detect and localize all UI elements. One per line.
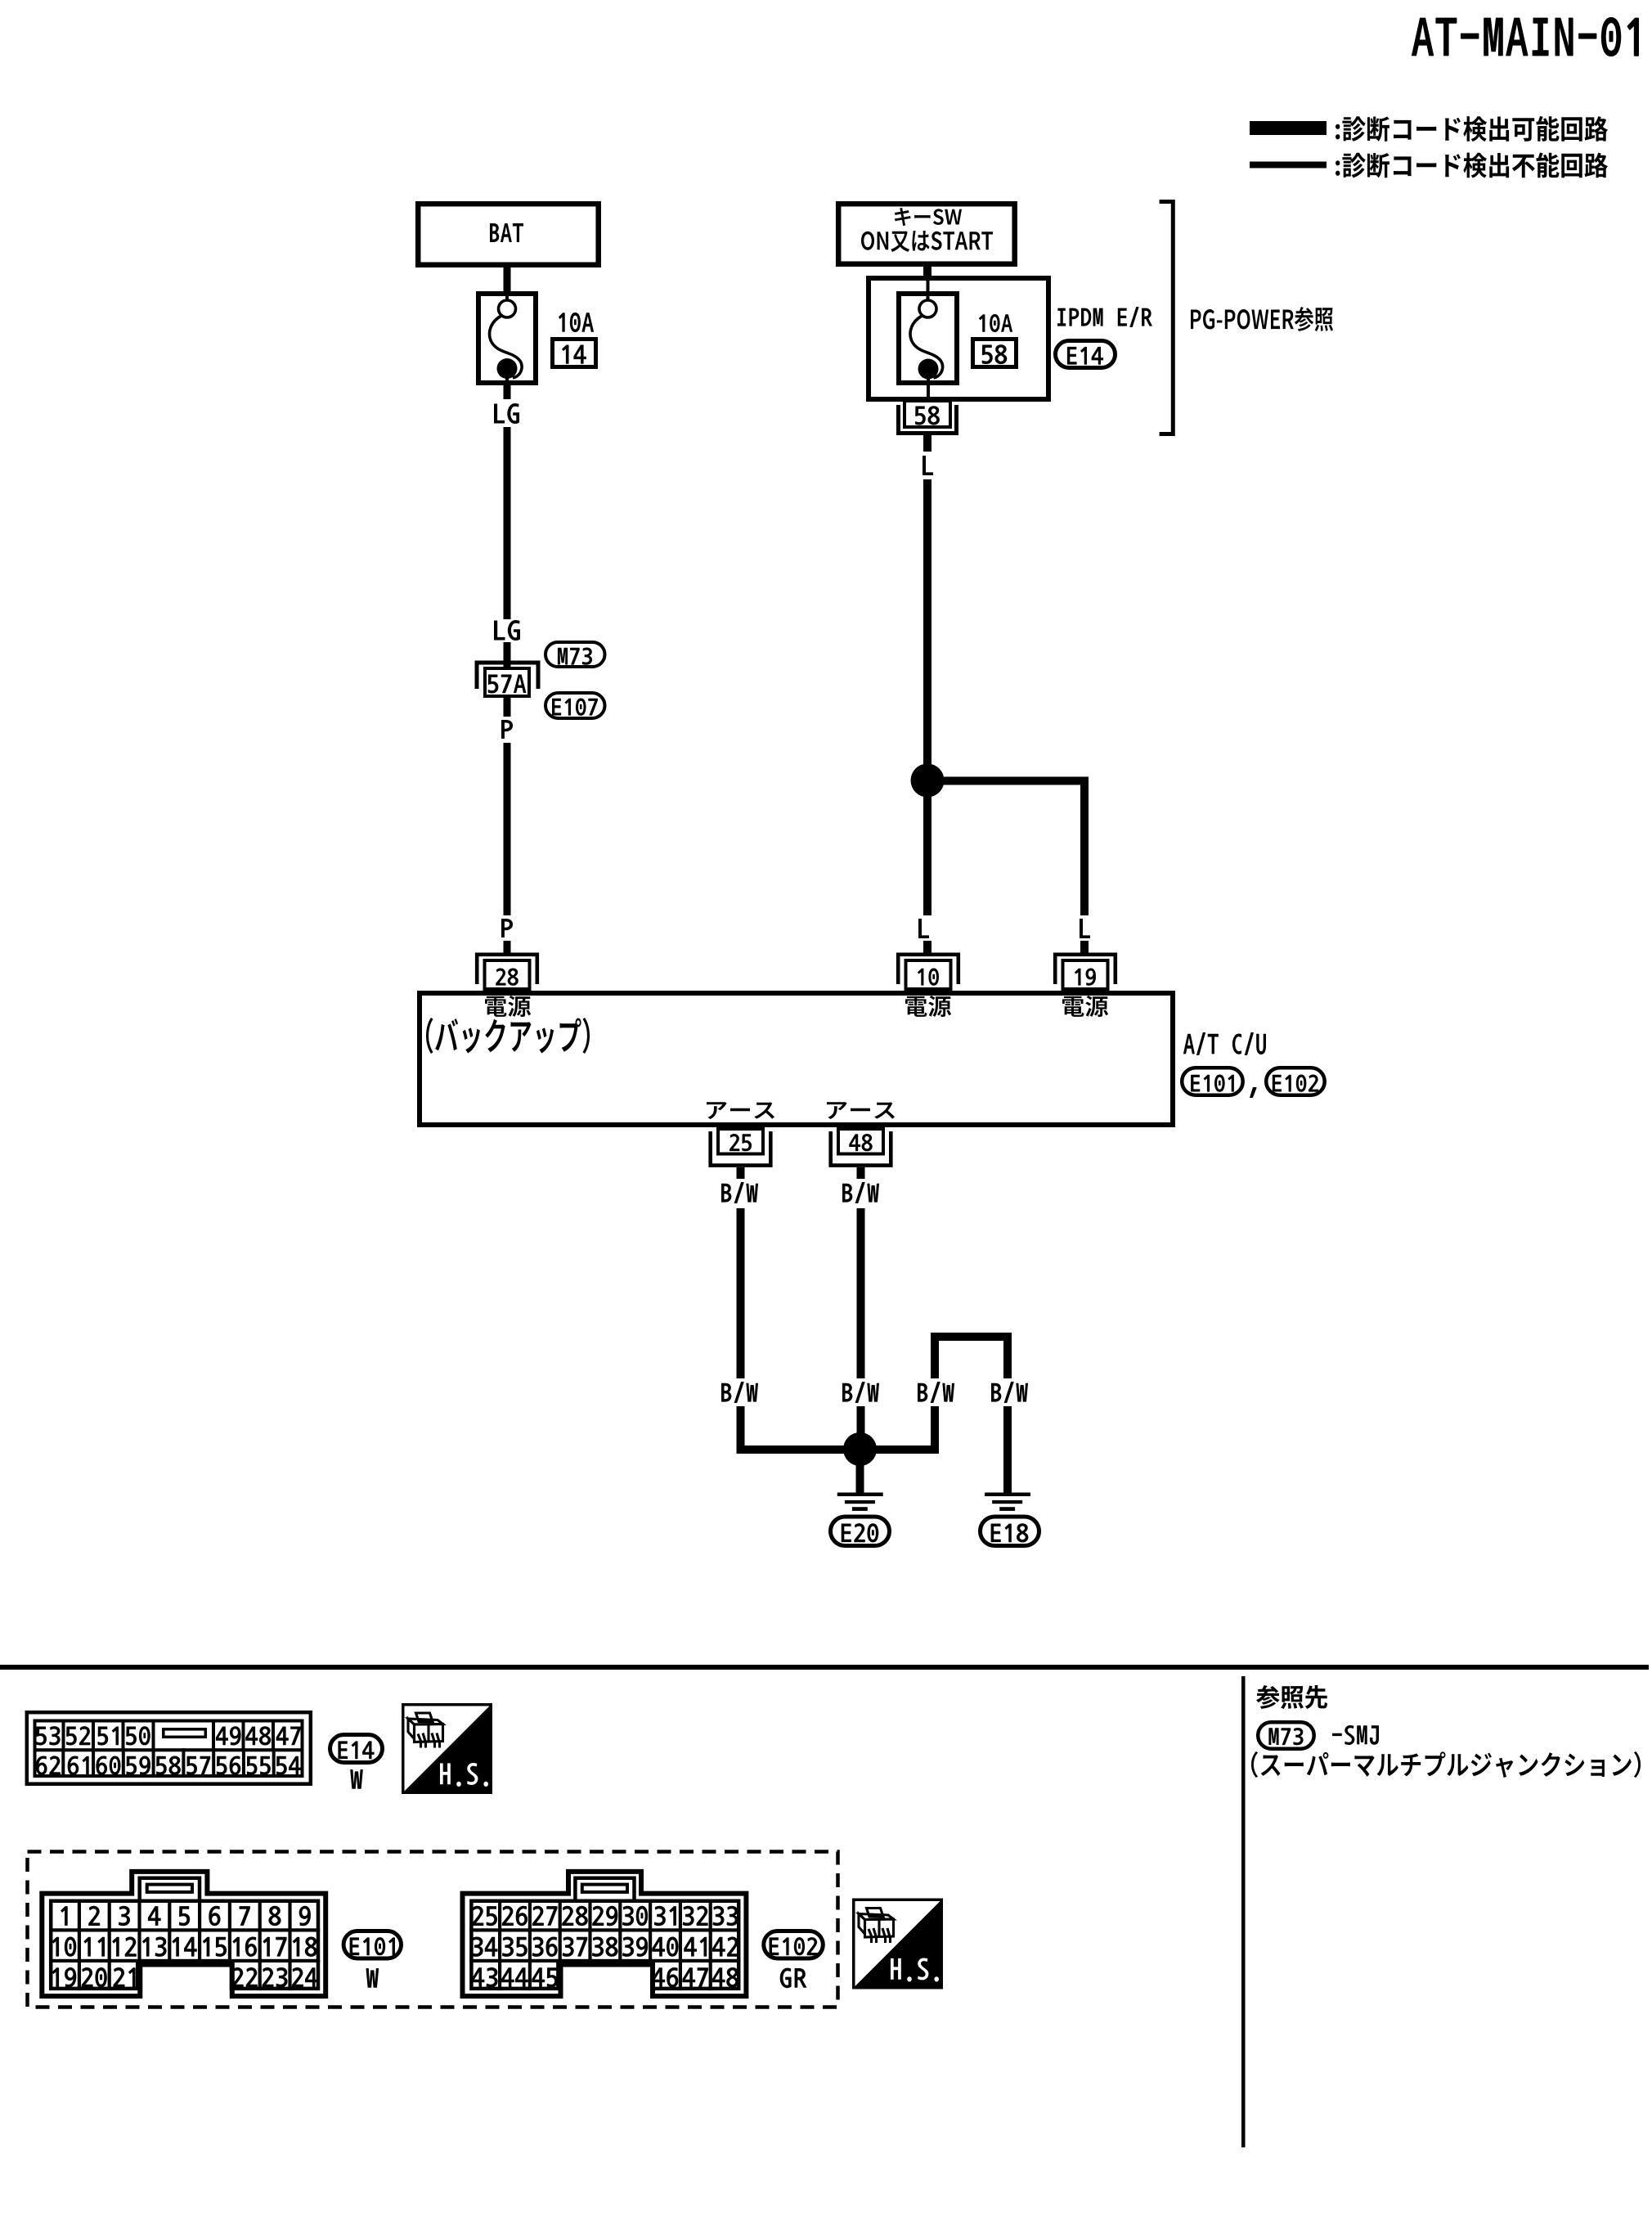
bridge wire top bar bbox=[931, 1333, 1012, 1341]
fuse 58 feed wire bbox=[927, 281, 930, 300]
pin 10 number bbox=[918, 969, 939, 986]
wire color B/W (row2 c) bbox=[918, 1382, 954, 1403]
wire stub below pin 25 bbox=[737, 1167, 745, 1179]
fuse number 14 box bbox=[553, 339, 596, 367]
pin 25 terminal box bbox=[718, 1129, 763, 1154]
wire B/W middle segment bbox=[857, 1208, 865, 1378]
connector ref M73 bbox=[558, 648, 592, 665]
legend label: non-detectable circuit bbox=[1336, 153, 1608, 178]
ground ref E18 bbox=[991, 1523, 1029, 1542]
connector E101 oval bbox=[1182, 1068, 1243, 1095]
fuse 14 element wire bbox=[505, 291, 509, 300]
wire junction to ground E20 bbox=[856, 1464, 864, 1494]
wire below fuse 14 bbox=[504, 385, 511, 399]
wire below 57A bbox=[504, 698, 511, 717]
fuse 14 bottom terminal dot bbox=[497, 358, 518, 379]
wire color B/W (row2 b) bbox=[842, 1382, 879, 1403]
ground connector E20 oval bbox=[831, 1517, 890, 1546]
fuse number 14 bbox=[562, 345, 586, 364]
E14 keyway slot bbox=[164, 1729, 206, 1738]
fuse number 58 box bbox=[973, 339, 1017, 367]
E14 connector outer box bbox=[27, 1712, 311, 1784]
pin 25 number bbox=[729, 1134, 752, 1151]
wire B/W left lower bbox=[737, 1406, 745, 1454]
SMJ terminal 57A box bbox=[485, 668, 529, 696]
connector 58 terminal box bbox=[905, 401, 950, 427]
PG-POWER reference bracket bbox=[1160, 202, 1174, 434]
pin 28 terminal box bbox=[485, 960, 530, 989]
wire P segment bbox=[504, 743, 511, 915]
pin 28 function label (バックアップ) bbox=[426, 1018, 590, 1054]
connector ref E101 bbox=[1191, 1075, 1234, 1092]
pin 19 terminal box bbox=[1063, 960, 1108, 989]
A/T C/U control unit box bbox=[420, 993, 1173, 1125]
terminal number 57A bbox=[488, 675, 527, 694]
wire L long segment bbox=[923, 479, 931, 764]
reference ref M73 bbox=[1268, 1728, 1303, 1745]
bridge wire left leg upper bbox=[931, 1341, 939, 1378]
pin 48 number bbox=[849, 1134, 872, 1151]
A/T C/U connector E101 pinout bbox=[42, 1872, 325, 1996]
BAT label bbox=[490, 223, 523, 242]
connector ref E102 bbox=[1273, 1075, 1318, 1092]
ground symbol E20 bbox=[837, 1493, 883, 1511]
fuse 14 body bbox=[478, 294, 536, 383]
bridge wire right leg upper bbox=[1003, 1341, 1012, 1378]
pin 10 terminal box bbox=[906, 960, 951, 989]
SMJ terminal 57A shell bbox=[477, 663, 538, 689]
fuse 14 S-curve element bbox=[490, 316, 523, 378]
wire color B/W (row2 a) bbox=[721, 1382, 758, 1403]
pin 19 shell bbox=[1055, 955, 1116, 984]
horizontal separator line bbox=[0, 1665, 1649, 1670]
junction node (key switch power) bbox=[911, 764, 945, 798]
pin 48 shell bbox=[831, 1131, 891, 1166]
fuse 58 S-curve element bbox=[910, 316, 943, 378]
IPDM E/R label bbox=[1057, 307, 1152, 327]
reference M73 oval bbox=[1258, 1722, 1314, 1749]
pin 28 function label 電源 bbox=[485, 996, 531, 1017]
bridge wire left leg lower bbox=[931, 1406, 939, 1454]
E14 connector grid frame bbox=[35, 1721, 303, 1777]
wire branch to pin 19 (horizontal) bbox=[940, 777, 1089, 785]
reference SMJ note bbox=[1251, 1751, 1641, 1778]
pin 10 function label 電源 bbox=[905, 996, 951, 1017]
wire branch vertical to pin 19 bbox=[1080, 777, 1089, 916]
terminal number 58 bbox=[915, 406, 940, 425]
legend thin-wire sample bar bbox=[1250, 162, 1327, 169]
wire LG segment bbox=[504, 427, 511, 619]
wire color L (above pin 10) bbox=[918, 919, 929, 938]
pin 25 function label アース bbox=[707, 1102, 774, 1119]
wire keySW to IPDM bbox=[923, 263, 931, 281]
legend thick-wire sample bar bbox=[1250, 121, 1327, 135]
reference heading 参照先 bbox=[1256, 1685, 1327, 1709]
wire color LG (upper) bbox=[494, 403, 519, 424]
wire color L (top) bbox=[923, 456, 933, 475]
E14 connector color W bbox=[350, 1769, 363, 1789]
wire color L (above pin 19) bbox=[1080, 919, 1090, 938]
bridge wire right leg lower bbox=[1003, 1406, 1012, 1494]
pin 10 shell bbox=[898, 955, 958, 984]
legend label: detectable circuit bbox=[1336, 116, 1608, 142]
wire into SMJ 57A bbox=[504, 642, 511, 668]
reference -SMJ label bbox=[1332, 1725, 1379, 1745]
wire BAT to fuse 14 bbox=[504, 263, 511, 292]
E14 grid row divider bbox=[34, 1748, 304, 1751]
pin 19 number bbox=[1075, 969, 1096, 986]
pin 48 terminal box bbox=[838, 1129, 883, 1154]
wire stub to pin 19 bbox=[1080, 941, 1089, 955]
E14 table ref bbox=[338, 1741, 374, 1759]
A/T C/U connectors dashed box bbox=[28, 1852, 838, 2007]
wire color LG (at SMJ) bbox=[494, 620, 520, 641]
A/T C/U label bbox=[1183, 1032, 1266, 1055]
wire stub to pin 10 bbox=[923, 941, 931, 955]
wire color B/W (pin 25) bbox=[721, 1182, 758, 1203]
junction node (ground) bbox=[843, 1432, 877, 1466]
fuse 58 lower element wire bbox=[927, 378, 930, 397]
wire B/W middle lower bbox=[857, 1406, 865, 1440]
wire stub to pin 28 bbox=[504, 941, 511, 955]
pin 28 number bbox=[496, 969, 518, 986]
fuse 58 bottom terminal dot bbox=[918, 359, 939, 380]
H.S. view icon (E101/E102) bbox=[852, 1899, 943, 1989]
key switch box bbox=[838, 204, 1015, 264]
connector ref E14 bbox=[1067, 347, 1103, 365]
fuse 58 top terminal circle bbox=[919, 300, 936, 317]
wire B/W left segment bbox=[737, 1208, 745, 1378]
PG-POWER reference label bbox=[1191, 307, 1333, 331]
wire color B/W (pin 48) bbox=[842, 1182, 879, 1203]
connector ref E107 bbox=[552, 699, 598, 716]
pin 48 function label アース bbox=[827, 1102, 895, 1119]
power source BAT box bbox=[418, 204, 599, 265]
key switch label line1 bbox=[895, 208, 962, 226]
fuse 58 body bbox=[899, 294, 957, 383]
wire ground horizontal right bbox=[860, 1445, 939, 1454]
pin 28 shell bbox=[477, 955, 537, 984]
wire color P (upper) bbox=[501, 720, 513, 739]
fuse rating 10A (IPDM) bbox=[979, 314, 1012, 332]
connector E14 oval bbox=[1056, 341, 1116, 368]
fuse number 58 bbox=[982, 344, 1008, 364]
connector 58 shell bbox=[899, 405, 957, 434]
key switch label line2 bbox=[861, 231, 993, 252]
IPDM E/R box bbox=[869, 278, 1048, 399]
wire color P (lower) bbox=[501, 919, 513, 937]
ground ref E20 bbox=[842, 1523, 879, 1542]
pin 25 shell bbox=[711, 1131, 771, 1166]
E14 pin numbers 53-47 / 62-54 bbox=[36, 1726, 301, 1775]
E14 table oval bbox=[330, 1735, 383, 1763]
SMJ connector E107 oval bbox=[545, 693, 605, 718]
wire color B/W (row2 d) bbox=[991, 1382, 1028, 1403]
H.S. view icon (E14) bbox=[402, 1703, 492, 1794]
E14 grid cell dividers bbox=[61, 1720, 275, 1778]
vertical separator line bbox=[1241, 1676, 1246, 2147]
wire stub below pin 48 bbox=[857, 1167, 865, 1179]
wire stub below connector 58 bbox=[923, 435, 931, 452]
connector E102 oval bbox=[1266, 1068, 1325, 1095]
SMJ connector M73 oval bbox=[545, 642, 605, 667]
wire ground horizontal left bbox=[737, 1445, 860, 1454]
title AT-MAIN-01 bbox=[1412, 17, 1639, 56]
fuse rating 10A bbox=[559, 312, 594, 332]
wire below junction to pin 10 bbox=[923, 795, 931, 915]
fuse 14 top terminal circle bbox=[499, 300, 516, 317]
ground connector E18 oval bbox=[981, 1517, 1039, 1546]
fuse 14 lower element wire bbox=[505, 378, 509, 385]
A/T C/U connector E102 pinout bbox=[463, 1872, 747, 1996]
comma separator bbox=[1250, 1087, 1257, 1098]
pin 19 function label 電源 bbox=[1062, 996, 1108, 1017]
ground symbol E18 bbox=[985, 1493, 1030, 1511]
